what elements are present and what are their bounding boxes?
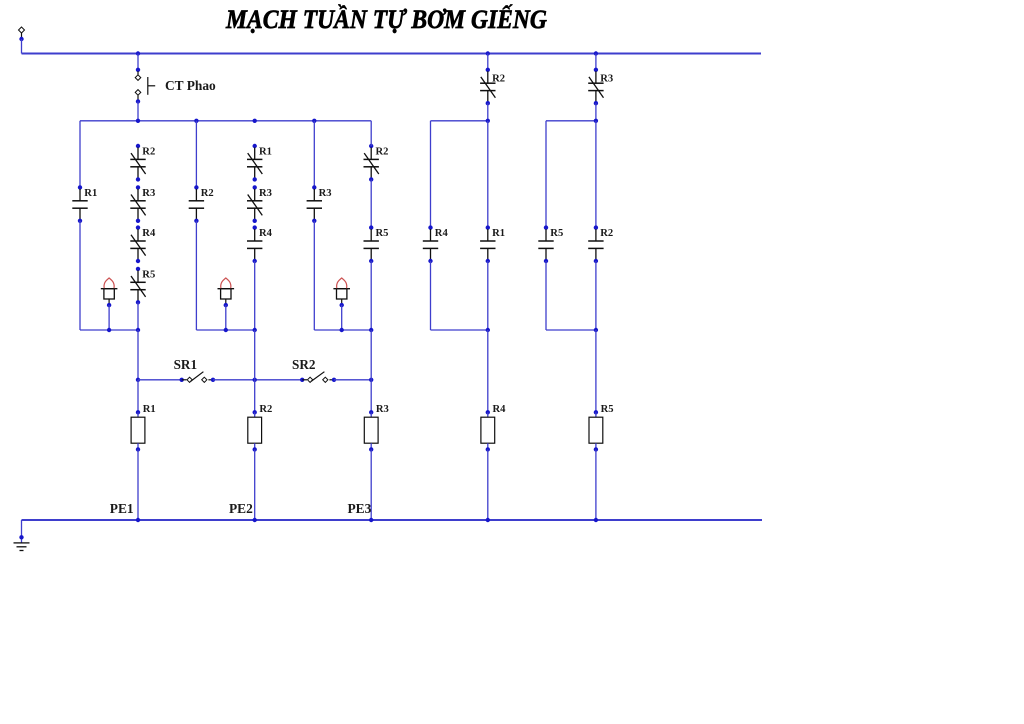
wire bottom return bus <box>22 519 763 521</box>
wire coil R3 to bottom bus <box>370 449 372 520</box>
svg-text:SR1: SR1 <box>174 357 197 372</box>
node group5 bottom bus at main5 <box>594 328 598 332</box>
node SR row at main3 <box>369 378 373 382</box>
wire lamp L1 to bottom bus <box>108 305 110 330</box>
wire group2 bottom bus <box>196 329 254 331</box>
node above ground <box>19 535 23 539</box>
wire group5 top bus <box>546 120 596 122</box>
wire coil R5 to bottom bus <box>595 449 597 520</box>
contact R5 NO (group5 left) <box>544 225 548 229</box>
node group1 bottom bus at main1 <box>136 328 140 332</box>
svg-text:R2: R2 <box>492 73 505 84</box>
wire main5 drop from top bus <box>595 54 597 70</box>
wire main4 to group4 bottom bus <box>487 261 489 330</box>
svg-text:PE3: PE3 <box>348 501 372 516</box>
svg-text:R4: R4 <box>142 228 156 239</box>
node bottom bus at main5 <box>594 518 598 522</box>
wire SR row SR1 to SR2 <box>213 379 302 381</box>
wire group4 left vertical upper <box>430 121 432 228</box>
contact R2 NO (group2 left) <box>194 185 198 189</box>
svg-text:R5: R5 <box>550 228 563 239</box>
contact R1 NO (group1 left) <box>78 185 82 189</box>
node group1 bottom bus at lamp <box>107 328 111 332</box>
wire group3 left vertical upper <box>313 121 315 188</box>
wire SR row SR2 to main3 <box>334 379 371 381</box>
wire main5 group bus to coil <box>595 330 597 412</box>
wire main5 middle <box>595 121 597 228</box>
lamp L3 <box>333 288 350 290</box>
wire main1 SR row to coil <box>137 380 139 413</box>
wire coil R2 to bottom bus <box>254 449 256 520</box>
svg-text:SR2: SR2 <box>292 357 316 372</box>
wire main5 to group5 bus <box>595 103 597 121</box>
node bottom bus at main1 <box>136 518 140 522</box>
wire main4 group bus to coil <box>487 330 489 412</box>
wire group5 bottom bus <box>546 329 596 331</box>
node group4 bottom bus at main4 <box>486 328 490 332</box>
svg-text:CT Phao: CT Phao <box>165 78 216 93</box>
svg-text:R5: R5 <box>376 228 389 239</box>
wire group4 bottom bus <box>431 329 488 331</box>
svg-text:R2: R2 <box>259 404 272 415</box>
switch CT Phao (float switch contact) <box>136 68 140 72</box>
terminal input top-left <box>19 27 25 33</box>
wire main5 to group5 bottom bus <box>595 261 597 330</box>
svg-text:PE1: PE1 <box>110 501 134 516</box>
relay coil R1 <box>136 410 140 414</box>
svg-text:R1: R1 <box>143 404 156 415</box>
wire main4 to group4 bus <box>487 103 489 121</box>
node group bus at main2 <box>253 119 257 123</box>
contact R1 NO (main4) <box>486 225 490 229</box>
node bottom bus at main2 <box>253 518 257 522</box>
node top-left <box>19 37 23 41</box>
svg-text:R4: R4 <box>259 228 273 239</box>
node SR row at main1 <box>136 378 140 382</box>
wire group1 left vertical lower <box>79 221 81 330</box>
node group bus at group2 left <box>194 119 198 123</box>
svg-text:R1: R1 <box>84 188 97 199</box>
wire main3 bottom bus to SR row <box>370 330 372 380</box>
wire group4 top bus <box>431 120 488 122</box>
wire main3 SR row to coil <box>370 380 372 413</box>
svg-text:R3: R3 <box>259 188 272 199</box>
svg-text:PE2: PE2 <box>229 501 253 516</box>
wire group5 left vertical lower <box>545 261 547 330</box>
wire main4 drop from top bus <box>487 54 489 70</box>
wire group3 left vertical lower <box>313 221 315 330</box>
contact R3 NC (main2) <box>253 185 257 189</box>
svg-text:R5: R5 <box>601 404 614 415</box>
wire group3 bottom bus <box>314 329 371 331</box>
relay coil R5 <box>594 410 598 414</box>
svg-text:R1: R1 <box>259 146 272 157</box>
contact R3 NC (main5 top) <box>594 68 598 72</box>
wire lamp L2 to bottom bus <box>225 305 227 330</box>
wire bottom bus to ground <box>21 520 23 543</box>
svg-text:R5: R5 <box>142 269 155 280</box>
wire main4 middle <box>487 121 489 228</box>
node bottom bus at main4 <box>486 518 490 522</box>
svg-text:R2: R2 <box>600 228 613 239</box>
contact R4 NO (group4 left) <box>428 225 432 229</box>
wire main3 top corner <box>370 121 372 146</box>
contact R3 NO (group3 left) <box>312 185 316 189</box>
switch SR1 <box>180 378 184 382</box>
lamp L2 <box>218 288 235 290</box>
node group5 bus at main5 <box>594 119 598 123</box>
node top bus at main5 <box>594 51 598 55</box>
wire main1 bottom bus to SR row <box>137 330 139 380</box>
lamp L1 <box>101 288 118 290</box>
contact R2 NC (main3) <box>369 144 373 148</box>
wire group 1-3 top bus <box>80 120 371 122</box>
svg-text:R4: R4 <box>493 404 507 415</box>
svg-text:MẠCH TUẦN TỰ BƠM GIẾNG: MẠCH TUẦN TỰ BƠM GIẾNG <box>225 4 547 35</box>
svg-text:R1: R1 <box>492 228 505 239</box>
svg-text:R3: R3 <box>600 73 613 84</box>
contact R2 NC (main1) <box>136 144 140 148</box>
wire group1 bottom bus <box>80 329 138 331</box>
svg-text:R2: R2 <box>201 188 214 199</box>
node group bus at group3 left <box>312 119 316 123</box>
wire coil R4 to bottom bus <box>487 449 489 520</box>
node group2 bottom bus at lamp <box>224 328 228 332</box>
node group4 bus at main4 <box>486 119 490 123</box>
relay coil R4 <box>486 410 490 414</box>
svg-text:R3: R3 <box>319 188 332 199</box>
wire group1 left vertical upper <box>79 121 81 188</box>
wire group5 left vertical upper <box>545 121 547 228</box>
wire group2 left vertical lower <box>195 221 197 330</box>
contact R4 NC (main1) <box>136 225 140 229</box>
svg-text:R2: R2 <box>142 146 155 157</box>
contact R5 NC (main1) <box>136 267 140 271</box>
wire main2 SR row to coil <box>254 380 256 413</box>
contact R3 NC (main1) <box>136 185 140 189</box>
wire group2 left vertical upper <box>195 121 197 188</box>
contact R1 NC (main2) <box>253 144 257 148</box>
node SR row at main2 <box>253 378 257 382</box>
node group2 bottom bus at main2 <box>253 328 257 332</box>
wire main1 drop from top bus <box>137 54 139 70</box>
node group bus at main1 <box>136 119 140 123</box>
wire main2 bottom bus to SR row <box>254 330 256 380</box>
relay coil R2 <box>253 410 257 414</box>
svg-text:R4: R4 <box>435 228 449 239</box>
node group3 bottom bus at lamp <box>340 328 344 332</box>
relay coil R3 <box>369 410 373 414</box>
ground <box>14 542 30 544</box>
wire coil R1 to bottom bus <box>137 449 139 520</box>
wire main3 to group3 bottom bus <box>370 261 372 330</box>
node bottom bus at main3 <box>369 518 373 522</box>
wire main3 between contacts <box>370 179 372 227</box>
contact R4 NO (main2) <box>253 225 257 229</box>
wire main2 to group2 bottom bus <box>254 261 256 330</box>
switch SR2 <box>300 378 304 382</box>
contact R2 NO (main5) <box>594 225 598 229</box>
node top bus at main4 <box>486 51 490 55</box>
contact R2 NC (main4 top) <box>486 68 490 72</box>
wire SR row main1 to SR1 <box>138 379 182 381</box>
wire top supply bus <box>22 52 762 54</box>
node top bus at CT Phao <box>136 51 140 55</box>
wire lamp L3 to bottom bus <box>341 305 343 330</box>
svg-text:R3: R3 <box>376 404 389 415</box>
wire main1 to group1 bottom bus <box>137 302 139 330</box>
svg-text:R2: R2 <box>376 146 389 157</box>
wire left rail to top bus <box>21 39 23 54</box>
node group3 bottom bus at main3 <box>369 328 373 332</box>
contact R5 NO (main3) <box>369 225 373 229</box>
wire group4 left vertical lower <box>430 261 432 330</box>
wire main1 to group bus <box>137 101 139 120</box>
svg-text:R3: R3 <box>142 188 155 199</box>
